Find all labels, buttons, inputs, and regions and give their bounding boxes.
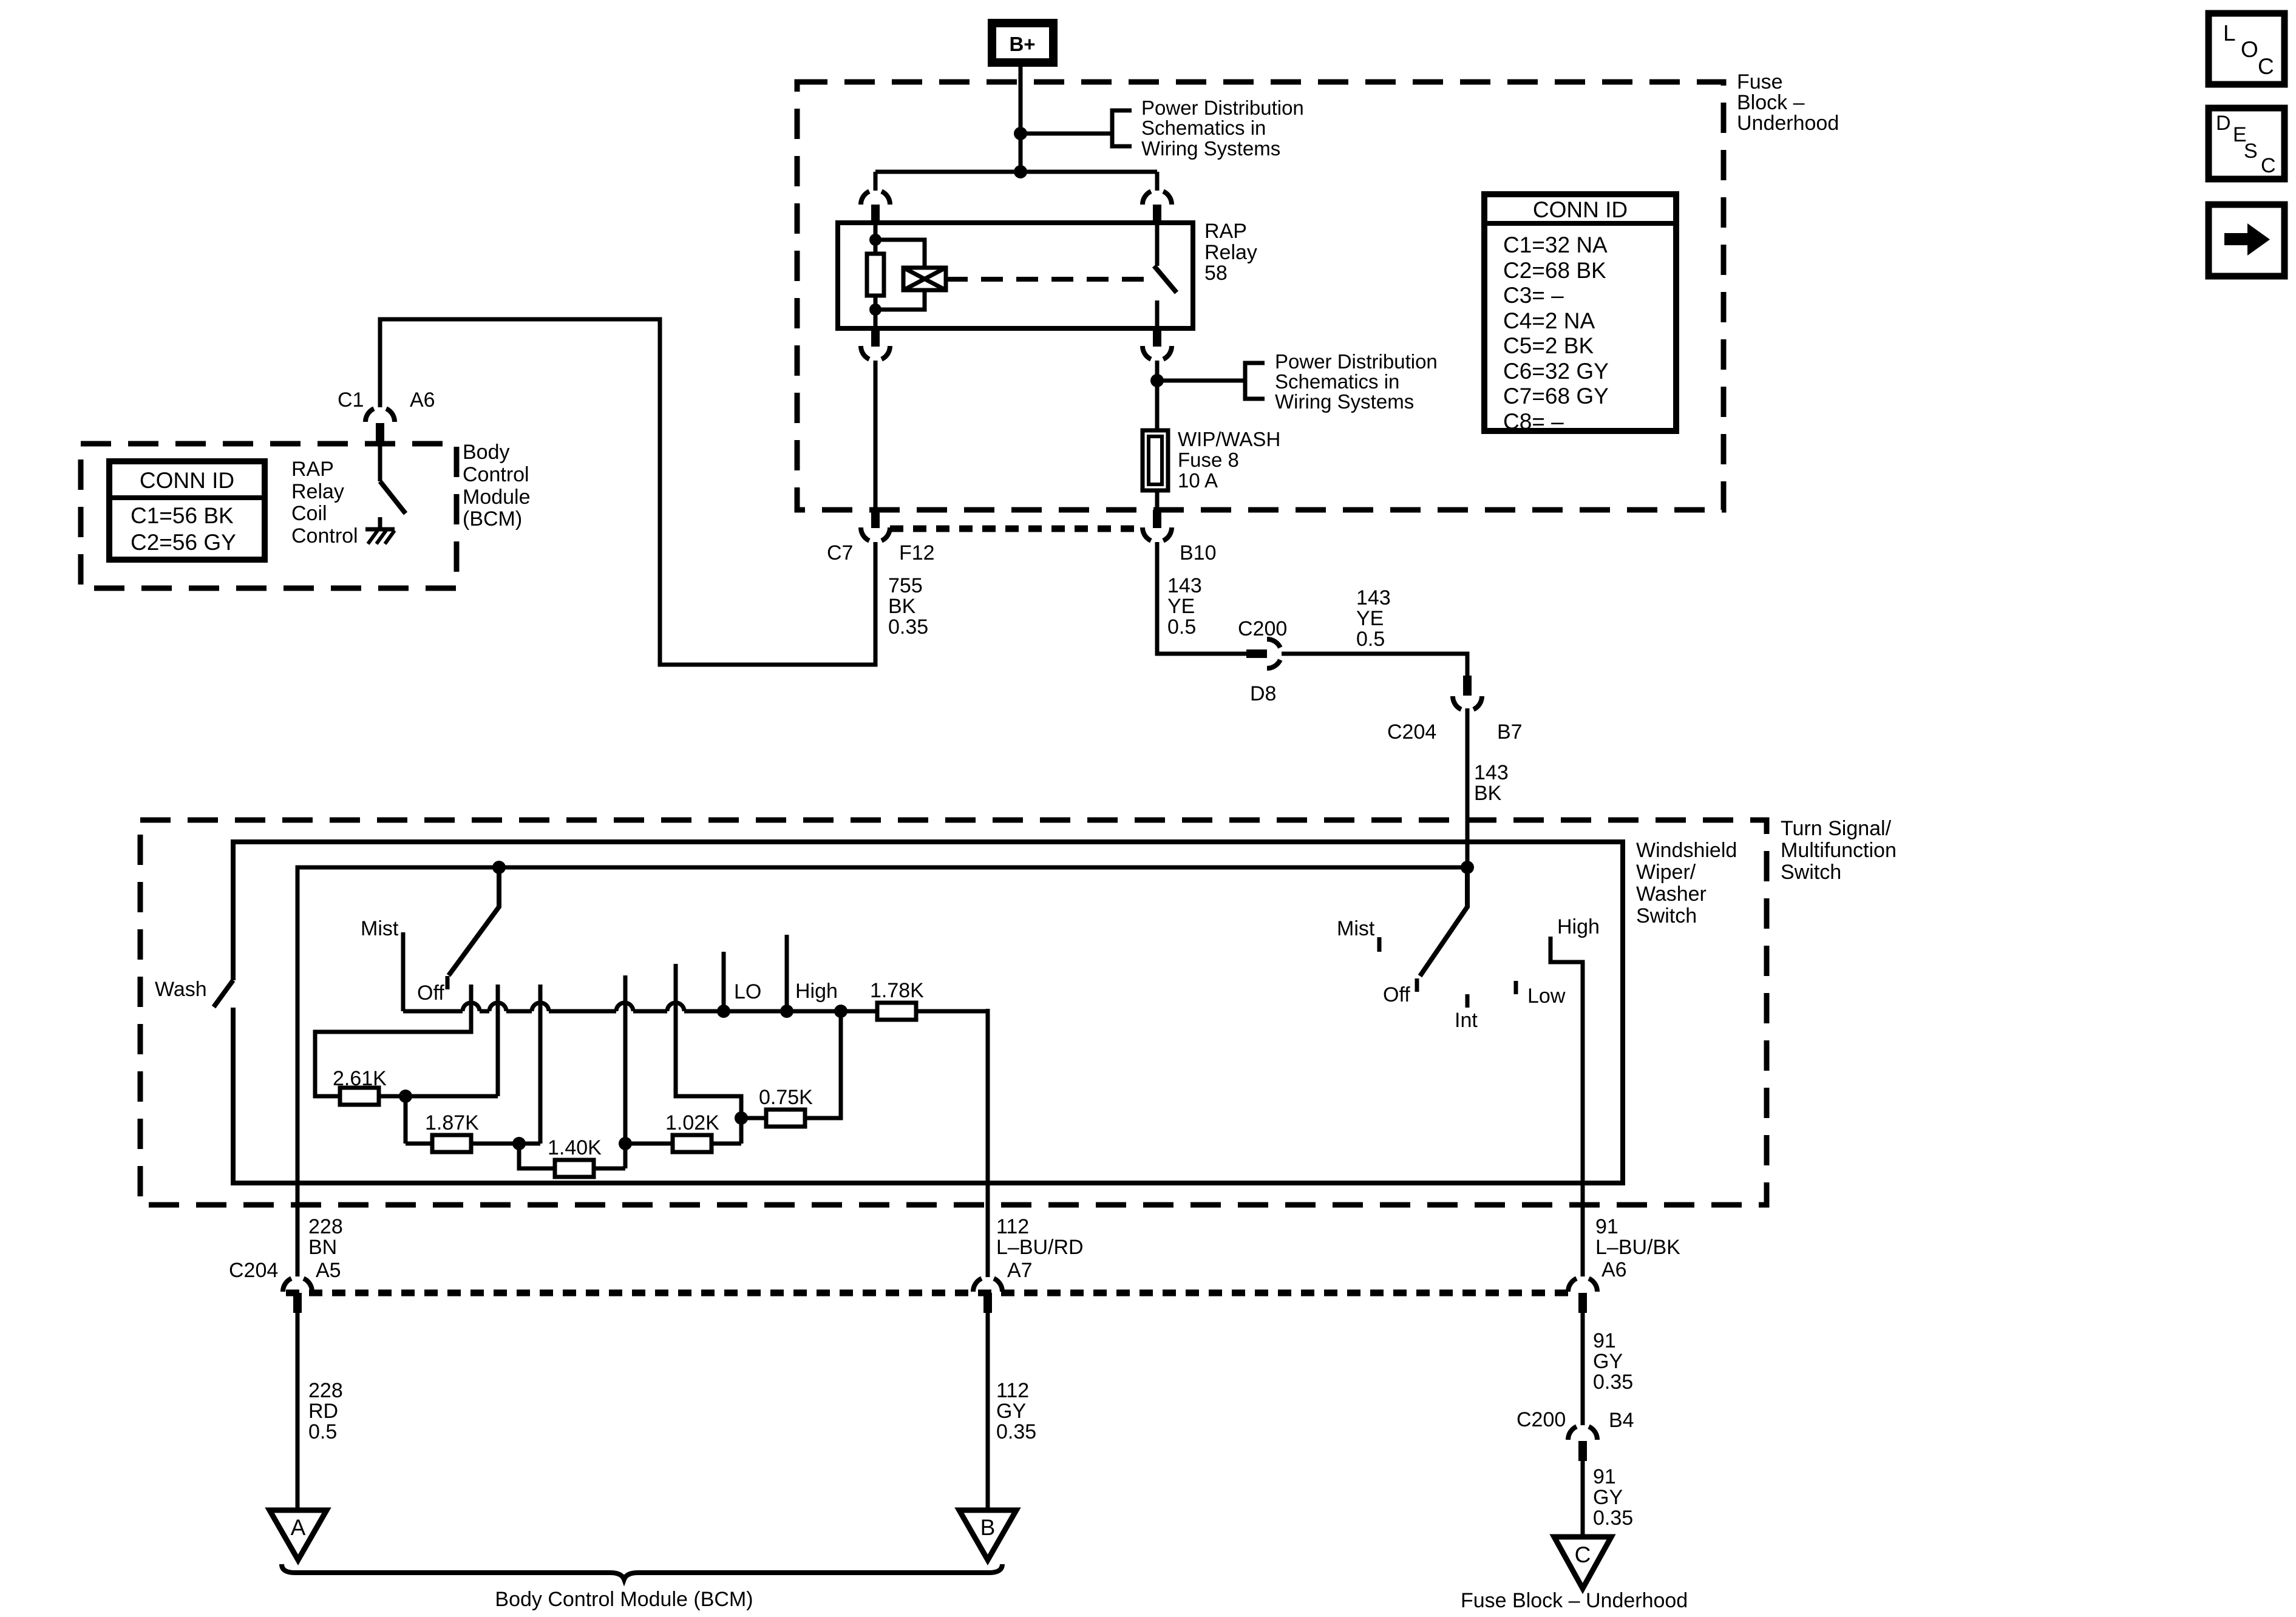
svg-text:C204: C204 [1387, 720, 1436, 744]
svg-text:CONN ID: CONN ID [1533, 197, 1628, 222]
node coil bottom [869, 303, 881, 316]
node coil top [869, 234, 881, 246]
node C [619, 1137, 632, 1150]
svg-text:Wiring Systems: Wiring Systems [1141, 137, 1280, 160]
svg-text:B7: B7 [1497, 720, 1523, 744]
contact off stub right [1415, 978, 1419, 992]
connector relay pin 3 bottom [861, 328, 890, 359]
connector C200 D8 inline [1246, 639, 1280, 668]
svg-text:A5: A5 [316, 1259, 341, 1282]
svg-text:C: C [2258, 54, 2274, 79]
svg-text:Control: Control [463, 463, 529, 486]
svg-text:LO: LO [734, 980, 761, 1003]
wire label 143 YE 0.5 second [1356, 586, 1391, 651]
conn id BCM entries [131, 503, 236, 555]
switch wiper mode arm right [1420, 867, 1467, 976]
label Windshield Wiper Washer Switch [1636, 839, 1737, 927]
relay actuation dashed link [946, 277, 1149, 282]
svg-text:A7: A7 [1007, 1259, 1033, 1282]
svg-text:B: B [980, 1515, 996, 1540]
svg-text:C2=56 GY: C2=56 GY [131, 530, 236, 555]
wire label 143 BK [1474, 761, 1509, 805]
svg-text:Module: Module [463, 486, 531, 509]
svg-text:Fuse 8: Fuse 8 [1178, 449, 1239, 471]
svg-text:C200: C200 [1238, 617, 1287, 640]
wire switch to ground [378, 517, 382, 529]
svg-text:C200: C200 [1517, 1408, 1566, 1431]
resistor 2.61K [340, 1088, 379, 1105]
svg-text:O: O [2241, 37, 2258, 62]
wire 1.02K to node D [712, 1142, 741, 1146]
svg-text:B+: B+ [1009, 33, 1035, 55]
svg-text:1.87K: 1.87K [425, 1111, 479, 1134]
connector C204 B7 inline [1453, 676, 1482, 710]
node E bus [834, 1005, 847, 1018]
node B [512, 1137, 526, 1150]
relay RAP box [838, 223, 1193, 328]
icon LOC box [2209, 13, 2284, 84]
connector C1 A6 [365, 408, 395, 443]
wire to relay coil [875, 240, 925, 310]
wire stub to power distribution bracket 2 [1157, 379, 1245, 383]
wire node B down [519, 1144, 555, 1168]
wire 0.75K up to bus [805, 1011, 841, 1118]
wire label 228 RD 0.5 [308, 1379, 343, 1443]
off-page triangle A [270, 1510, 327, 1560]
svg-text:91: 91 [1595, 1215, 1618, 1238]
resistor relay coil suppression [867, 254, 884, 296]
svg-text:Switch: Switch [1781, 861, 1841, 884]
wire 112 GY to triangle B [986, 1313, 990, 1513]
contact terminal 5 [676, 964, 741, 1144]
svg-text:D: D [2216, 112, 2231, 135]
svg-text:C1=56 BK: C1=56 BK [131, 503, 234, 528]
power node B+ [992, 23, 1053, 63]
wire 143 BK down to switch [1466, 708, 1470, 867]
connector C204 A7 [973, 1278, 1002, 1313]
resistor ladder bus with hops [403, 1009, 988, 1014]
resistor 1.40K [555, 1160, 594, 1177]
svg-text:C4=2 NA: C4=2 NA [1503, 308, 1595, 333]
turn signal multifunction switch dashed box [140, 820, 1767, 1205]
svg-text:C1=32 NA: C1=32 NA [1503, 232, 1608, 257]
label power distribution schematics 2 [1275, 350, 1438, 413]
svg-text:Wiring Systems: Wiring Systems [1275, 390, 1414, 413]
svg-text:2.61K: 2.61K [333, 1067, 387, 1090]
wire relay pin4 down [1155, 361, 1160, 430]
wire mist terminal to resistor bus [401, 932, 406, 1011]
node High left [780, 1005, 793, 1018]
svg-text:Int: Int [1455, 1009, 1478, 1032]
contact LO [722, 952, 726, 1011]
svg-text:C2=68 BK: C2=68 BK [1503, 258, 1606, 283]
wire 91 GY upper [1581, 1313, 1585, 1425]
svg-text:WIP/WASH: WIP/WASH [1178, 428, 1280, 450]
bus hop arc 1 [463, 1003, 480, 1011]
bracket power distribution 1 [1112, 110, 1132, 146]
svg-text:0.35: 0.35 [1593, 1507, 1633, 1530]
wire relay switch lower [1155, 300, 1160, 328]
svg-text:0.75K: 0.75K [759, 1086, 813, 1109]
svg-text:B10: B10 [1180, 541, 1217, 564]
relay coil symbol [903, 268, 946, 290]
wire 755 BK routing to BCM [380, 319, 875, 665]
svg-text:Relay: Relay [1204, 241, 1257, 264]
svg-text:Washer: Washer [1636, 883, 1707, 906]
svg-text:1.78K: 1.78K [870, 979, 924, 1002]
wire node A down [404, 1096, 408, 1144]
node junction PD stub 2 [1150, 374, 1164, 387]
svg-text:C7=68 GY: C7=68 GY [1503, 384, 1609, 408]
svg-text:0.35: 0.35 [1593, 1371, 1633, 1394]
svg-text:112: 112 [996, 1379, 1029, 1402]
wire label 91 GY 0.35 upper [1593, 1329, 1633, 1394]
wire 228 RD to triangle A [296, 1313, 300, 1513]
svg-text:228: 228 [308, 1379, 343, 1402]
contact mist stub right [1377, 937, 1382, 952]
svg-text:Fuse: Fuse [1737, 70, 1783, 93]
wire 1.87K to node B [471, 1142, 540, 1146]
wire B+ down to relay bus [1019, 67, 1023, 172]
node junction bus [1014, 165, 1027, 178]
wire relay pin3 down to C7 [874, 361, 878, 510]
svg-text:1.02K: 1.02K [665, 1111, 719, 1134]
wire 143 YE to C204 [1282, 654, 1467, 676]
svg-text:Power Distribution: Power Distribution [1275, 350, 1438, 373]
svg-text:High: High [795, 980, 838, 1003]
svg-text:Multifunction: Multifunction [1781, 839, 1897, 862]
svg-text:RAP: RAP [1204, 220, 1247, 243]
harness connector dashed line C204 [286, 1290, 1569, 1297]
svg-text:112: 112 [996, 1215, 1029, 1238]
connector C204 A6 [1568, 1278, 1597, 1313]
svg-text:D8: D8 [1250, 682, 1276, 705]
wire label 112 GY 0.35 [996, 1379, 1036, 1443]
svg-text:Control: Control [291, 524, 358, 547]
svg-text:GY: GY [996, 1400, 1026, 1423]
wire label 91 L-BU/BK [1595, 1215, 1680, 1259]
connector relay pin 1 top [861, 191, 890, 225]
switch BCM rap relay coil control [380, 481, 406, 514]
svg-text:A: A [291, 1515, 306, 1540]
wire 91 GY lower [1581, 1461, 1585, 1538]
svg-text:RD: RD [308, 1400, 338, 1423]
wire node D to 0.75K [741, 1116, 766, 1120]
switch wiper mode arm left [449, 867, 499, 975]
bracket power distribution 2 [1245, 363, 1265, 399]
svg-text:Underhood: Underhood [1737, 112, 1839, 135]
contact low stub [1514, 981, 1518, 994]
conn id table underhood [1484, 194, 1676, 431]
svg-text:228: 228 [308, 1215, 343, 1238]
bus hop arc 2 [489, 1003, 506, 1011]
svg-text:Body: Body [463, 441, 510, 464]
svg-text:L: L [2223, 21, 2236, 46]
wire relay switch upper [1155, 225, 1160, 266]
svg-text:C7: C7 [827, 541, 853, 564]
wire label 228 BN [308, 1215, 343, 1259]
contact terminal 4 [623, 975, 628, 1168]
svg-text:Mist: Mist [1337, 917, 1375, 940]
wire 143 YE from B10 [1157, 542, 1246, 654]
contact terminal 3 [538, 985, 543, 1144]
svg-text:0.5: 0.5 [1356, 628, 1385, 651]
svg-text:GY: GY [1593, 1350, 1623, 1373]
svg-text:143: 143 [1356, 586, 1391, 609]
resistor 0.75K [766, 1110, 805, 1127]
contact off stub left [446, 976, 450, 989]
svg-text:CONN ID: CONN ID [140, 468, 234, 493]
resistor 1.87K [432, 1135, 471, 1152]
brace body control module [282, 1564, 1002, 1579]
svg-text:High: High [1557, 915, 1600, 938]
wire to 1.87K [406, 1142, 432, 1146]
svg-text:YE: YE [1356, 607, 1384, 630]
svg-text:Relay: Relay [291, 480, 344, 503]
node junction wiper input [1461, 861, 1474, 874]
bus hop arc 5 [667, 1003, 684, 1011]
svg-text:Low: Low [1527, 985, 1566, 1008]
wire label 91 GY 0.35 lower [1593, 1465, 1633, 1530]
svg-text:Body Control Module (BCM): Body Control Module (BCM) [495, 1588, 753, 1611]
svg-text:C: C [1575, 1542, 1591, 1567]
connector relay pin 4 bottom [1143, 328, 1172, 359]
svg-text:0.5: 0.5 [308, 1420, 337, 1443]
svg-text:Fuse Block – Underhood: Fuse Block – Underhood [1461, 1589, 1688, 1612]
wire wiper output B down [986, 1009, 990, 1277]
label RAP Relay 58 [1204, 220, 1257, 285]
wire stub to power distribution bracket 1 [1021, 132, 1112, 136]
svg-text:C8= –: C8= – [1503, 409, 1564, 434]
svg-text:L–BU/RD: L–BU/RD [996, 1236, 1084, 1259]
svg-text:0.35: 0.35 [888, 615, 928, 639]
svg-text:C6=32 GY: C6=32 GY [1503, 359, 1609, 384]
label Turn Signal Multifunction Switch [1781, 817, 1897, 884]
svg-text:C1: C1 [338, 388, 364, 412]
resistor 1.78K [877, 1003, 916, 1020]
svg-text:B4: B4 [1609, 1409, 1634, 1432]
conn id table BCM [109, 461, 265, 560]
svg-text:Schematics in: Schematics in [1275, 370, 1399, 393]
svg-text:Off: Off [1383, 983, 1410, 1006]
svg-text:91: 91 [1593, 1329, 1616, 1352]
wire label 755 BK 0.35 [888, 574, 928, 639]
contact high wire to output [1550, 937, 1583, 1276]
svg-text:BN: BN [308, 1236, 337, 1259]
contact High left [785, 935, 789, 1011]
svg-text:F12: F12 [899, 541, 935, 564]
svg-text:755: 755 [888, 574, 923, 597]
svg-text:C5=2 BK: C5=2 BK [1503, 333, 1594, 358]
contact terminal 1 to 2.61K [315, 985, 471, 1096]
conn id table entries [1503, 232, 1609, 434]
harness connector dashed line C7-B10 [890, 526, 1143, 532]
svg-text:143: 143 [1474, 761, 1509, 784]
svg-text:10 A: 10 A [1178, 469, 1218, 492]
svg-text:0.35: 0.35 [996, 1420, 1036, 1443]
svg-text:GY: GY [1593, 1486, 1623, 1509]
label WIP/WASH Fuse 8 10 A [1178, 428, 1280, 492]
svg-text:L–BU/BK: L–BU/BK [1595, 1236, 1680, 1259]
svg-text:91: 91 [1593, 1465, 1616, 1488]
node A [399, 1090, 412, 1103]
svg-text:C: C [2261, 154, 2276, 177]
relay switch arm [1154, 266, 1177, 293]
svg-text:YE: YE [1167, 595, 1195, 618]
svg-text:C204: C204 [229, 1259, 278, 1282]
wire node C to 1.02K [625, 1142, 673, 1146]
icon arrow box [2209, 205, 2284, 276]
ground chassis [365, 529, 395, 544]
svg-text:Block –: Block – [1737, 91, 1805, 114]
bus hop arc 4 [616, 1003, 633, 1011]
wire label 143 YE 0.5 first [1167, 574, 1202, 639]
connector C7 F12 at fuse block bottom [861, 510, 890, 541]
svg-text:Wash: Wash [155, 978, 207, 1001]
wire 1.40K to terminal 4 [594, 1167, 625, 1171]
svg-text:BK: BK [888, 595, 916, 618]
svg-text:Coil: Coil [291, 502, 327, 525]
wire into BCM [378, 443, 382, 481]
svg-text:C3= –: C3= – [1503, 283, 1564, 308]
node LO [717, 1005, 730, 1018]
svg-text:Wiper/: Wiper/ [1636, 861, 1696, 884]
wire relay top bus [875, 170, 1157, 174]
icon DESC box [2209, 108, 2284, 179]
off-page triangle C [1554, 1537, 1611, 1588]
svg-text:143: 143 [1167, 574, 1202, 597]
label RAP Relay Coil Control [291, 458, 358, 547]
node junction mist arm left [492, 861, 506, 874]
connector C200 B4 [1568, 1426, 1597, 1461]
contact terminal 2 [496, 985, 500, 1096]
label power distribution schematics 1 [1141, 97, 1304, 160]
contact int stub [1466, 994, 1470, 1008]
svg-text:1.40K: 1.40K [548, 1136, 602, 1159]
svg-text:S: S [2244, 140, 2258, 163]
svg-text:Switch: Switch [1636, 904, 1697, 927]
label Fuse Block Underhood [1737, 70, 1839, 135]
svg-text:A6: A6 [410, 388, 435, 412]
svg-text:Schematics in: Schematics in [1141, 117, 1266, 139]
svg-text:(BCM): (BCM) [463, 507, 522, 531]
connector B10 at fuse block bottom [1143, 510, 1172, 541]
resistor 1.02K [673, 1135, 712, 1152]
node D [735, 1111, 748, 1125]
bus hop arc 3 [532, 1003, 549, 1011]
fuse WIP/WASH Fuse 8 10A [1143, 430, 1168, 490]
svg-text:Off: Off [417, 981, 444, 1005]
switch wash arm [214, 980, 233, 1007]
wire label 112 L-BU/RD [996, 1215, 1084, 1259]
off-page triangle B [959, 1510, 1016, 1560]
svg-text:Windshield: Windshield [1636, 839, 1737, 862]
svg-text:Power Distribution: Power Distribution [1141, 97, 1304, 119]
svg-text:0.5: 0.5 [1167, 615, 1196, 639]
wire relay coil branch left [874, 225, 878, 328]
connector C204 A5 [283, 1278, 312, 1313]
svg-text:Mist: Mist [361, 917, 399, 940]
fuse block underhood dashed box [797, 82, 1724, 510]
wire bus to relay pin 1 [874, 172, 878, 191]
svg-text:BK: BK [1474, 782, 1502, 805]
windshield wiper washer switch inner box (with wash switch gap on left edge) [233, 842, 1623, 1183]
wire bus to relay pin 2 [1155, 172, 1160, 191]
svg-text:Turn Signal/: Turn Signal/ [1781, 817, 1892, 840]
svg-text:A6: A6 [1601, 1258, 1627, 1281]
BCM dashed box [81, 444, 457, 588]
node junction B+ / PD stub [1014, 127, 1027, 140]
svg-text:58: 58 [1204, 262, 1228, 285]
wire 2.61K to node A [379, 1094, 498, 1099]
wire wiper common top [297, 867, 1467, 1276]
wire fuse bottom [1155, 490, 1160, 510]
label Body Control Module (BCM) [463, 441, 531, 531]
connector relay pin 2 top [1143, 191, 1172, 225]
svg-text:RAP: RAP [291, 458, 334, 481]
